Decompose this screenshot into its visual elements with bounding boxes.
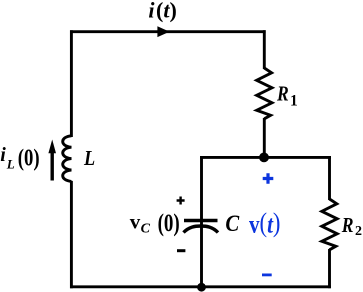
label plus (blue, v polarity) <box>263 173 274 184</box>
svg-text:v: v <box>130 210 141 234</box>
svg-text:1: 1 <box>290 93 298 110</box>
svg-text:2: 2 <box>355 224 362 239</box>
label R1 <box>276 82 298 110</box>
svg-text:C: C <box>225 211 239 236</box>
svg-text:(0): (0) <box>18 144 40 171</box>
label minus (blue, v polarity) <box>262 273 272 276</box>
resistor R1 <box>257 68 272 119</box>
resistor R2 <box>322 199 337 250</box>
svg-text:L: L <box>83 147 95 170</box>
label vC(0) <box>130 208 180 236</box>
arrow iL(0) initial current shaft <box>51 152 54 181</box>
label minus (black, vC polarity) <box>177 249 185 252</box>
capacitor C bottom curved plate <box>184 226 219 233</box>
wire R2 branch top <box>328 156 331 200</box>
svg-text:L: L <box>6 156 15 171</box>
capacitor C top plate <box>184 219 218 222</box>
arrow current direction i(t) <box>158 27 168 36</box>
wire bottom horizontal <box>70 285 331 288</box>
svg-text:R: R <box>341 213 354 237</box>
svg-text:i(t): i(t) <box>148 0 176 23</box>
svg-text:v(t): v(t) <box>249 209 280 238</box>
label plus (black, vC polarity) <box>177 197 185 205</box>
arrow iL(0) head <box>48 140 56 154</box>
svg-text:i: i <box>0 144 6 166</box>
node junction dot bottom <box>197 283 206 292</box>
node junction dot top <box>259 153 269 163</box>
svg-text:(0): (0) <box>158 208 180 236</box>
svg-text:R: R <box>276 82 289 106</box>
wire right vertical upper (R1 branch top) <box>263 30 266 69</box>
wire middle horizontal <box>200 156 331 159</box>
svg-text:C: C <box>141 222 151 237</box>
label iL(0) <box>0 144 39 171</box>
wire R1 bottom to node <box>263 118 266 158</box>
wire top horizontal <box>70 30 266 33</box>
wire left vertical upper <box>70 30 73 137</box>
wire R2 branch bottom <box>328 249 331 288</box>
label R2 <box>341 213 362 239</box>
inductor L <box>63 136 72 182</box>
wire capacitor branch (passes through plates) <box>200 156 203 288</box>
wire left vertical lower <box>70 181 73 288</box>
